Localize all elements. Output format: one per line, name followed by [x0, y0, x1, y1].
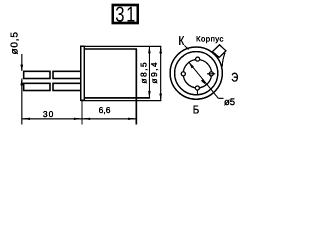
- svg-text:ø5: ø5: [224, 97, 235, 108]
- label B (base): [193, 103, 200, 116]
- svg-text:31: 31: [115, 3, 137, 27]
- pin K (top): [196, 57, 200, 61]
- pin E (right): [209, 72, 213, 76]
- svg-text:Корпус: Корпус: [196, 35, 224, 44]
- svg-text:30: 30: [43, 109, 54, 119]
- svg-text:ø8,5: ø8,5: [138, 61, 148, 84]
- svg-text:К: К: [179, 34, 185, 48]
- arrow left 6,6: [82, 118, 90, 120]
- extension line mid (flange): [81, 101, 83, 125]
- dimension line 30 / 6,6: [22, 118, 137, 120]
- lead lower (two segments with break): [24, 83, 81, 90]
- dimension dia 0,5 (lead): [10, 31, 24, 85]
- arrow right 6,6: [128, 118, 136, 120]
- svg-text:6,6: 6,6: [99, 105, 111, 115]
- svg-text:Э: Э: [231, 71, 238, 85]
- label E (emitter): [231, 71, 238, 85]
- tab to case fillet: [222, 53, 225, 67]
- flange (side view, diameter 9,4): [81, 46, 85, 100]
- key tab (diamond): [212, 45, 226, 58]
- arrow right 30: [74, 118, 82, 120]
- arrow left 30: [22, 118, 30, 120]
- figure number box 31: [113, 3, 138, 27]
- pin left: [181, 72, 185, 76]
- bottom view: case inner circle: [175, 52, 218, 95]
- tick through pin E: [207, 73, 215, 75]
- extension line bottom (flange dia): [81, 100, 162, 102]
- dimension dia 8,5: [138, 46, 150, 98]
- pin circle: [183, 59, 211, 87]
- svg-text:Б: Б: [193, 103, 200, 116]
- lead upper (two segments with break): [24, 71, 81, 78]
- dimension dia 5 (pin circle): [189, 62, 235, 108]
- stub below pin B: [196, 90, 198, 95]
- dimension dia 9,4: [149, 46, 162, 100]
- can body (side view, diameter 8,5): [84, 49, 150, 125]
- label K (collector) with leader: [179, 34, 189, 49]
- svg-text:ø9,4: ø9,4: [149, 61, 159, 84]
- bottom view: case outer circle: [170, 47, 222, 99]
- extension line left (lead end): [21, 79, 23, 125]
- pin B (bottom): [195, 86, 199, 90]
- svg-text:ø0,5: ø0,5: [10, 31, 21, 54]
- extension line top (flange dia): [81, 45, 162, 47]
